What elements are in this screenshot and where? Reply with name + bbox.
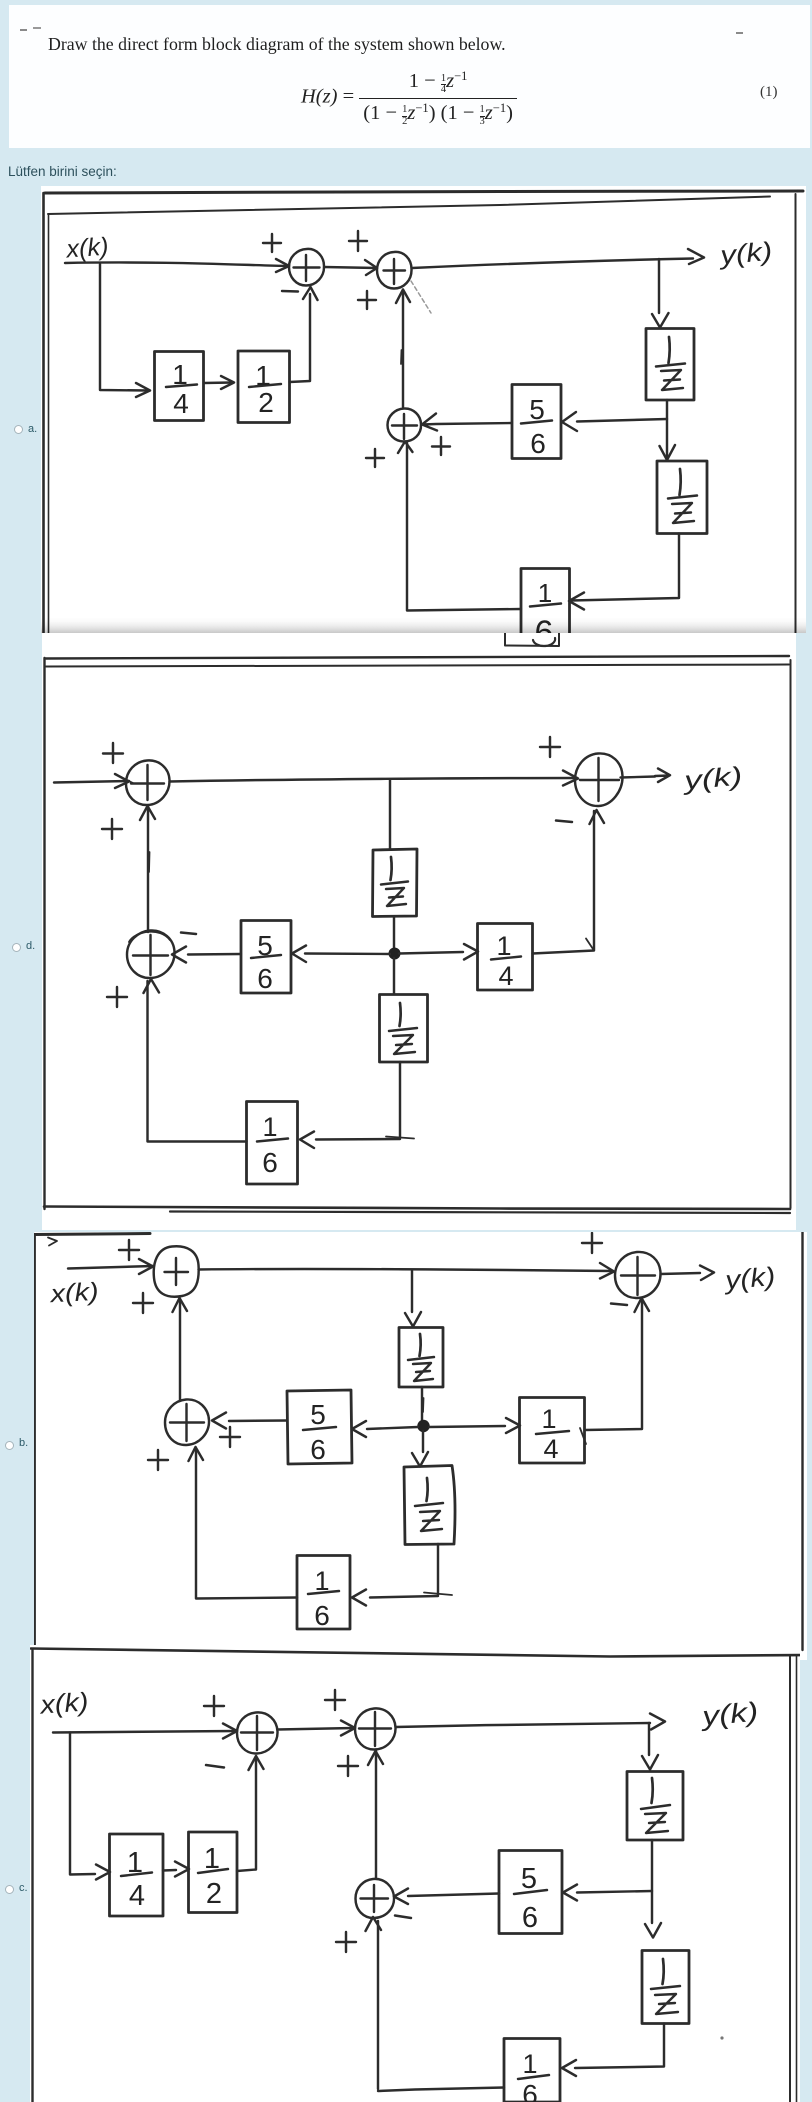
svg-text:4: 4 [129,1880,145,1912]
svg-text:6: 6 [314,1600,330,1631]
svg-text:1: 1 [204,1843,220,1875]
svg-text:6: 6 [530,428,546,459]
svg-text:5: 5 [521,1863,537,1895]
svg-text:6: 6 [310,1434,326,1465]
svg-text:1: 1 [522,2049,537,2079]
svg-text:6: 6 [522,1902,538,1934]
svg-text:1: 1 [127,1847,143,1879]
svg-text:4: 4 [543,1434,558,1464]
svg-text:6: 6 [262,1147,278,1178]
svg-text:2: 2 [206,1878,222,1910]
svg-text:4: 4 [498,961,513,991]
svg-text:1: 1 [541,1404,556,1434]
svg-text:2: 2 [258,387,274,418]
svg-text:1: 1 [314,1566,329,1596]
svg-text:1: 1 [496,931,511,961]
svg-text:6: 6 [522,2079,538,2102]
svg-text:5: 5 [257,930,273,961]
svg-text:y(k): y(k) [717,236,774,271]
svg-text:y(k): y(k) [680,761,743,796]
svg-text:x(k): x(k) [65,233,110,264]
svg-text:4: 4 [173,388,189,419]
svg-text:5: 5 [529,394,545,425]
svg-text:y(k): y(k) [722,1261,777,1295]
svg-text:1: 1 [262,1112,277,1142]
svg-text:1: 1 [172,359,188,390]
svg-text:y(k): y(k) [699,1697,760,1732]
svg-text:6: 6 [257,963,273,994]
svg-text:1: 1 [538,578,552,608]
svg-text:x(k): x(k) [49,1278,100,1309]
svg-text:x(k): x(k) [37,1686,89,1719]
svg-text:5: 5 [310,1399,326,1430]
